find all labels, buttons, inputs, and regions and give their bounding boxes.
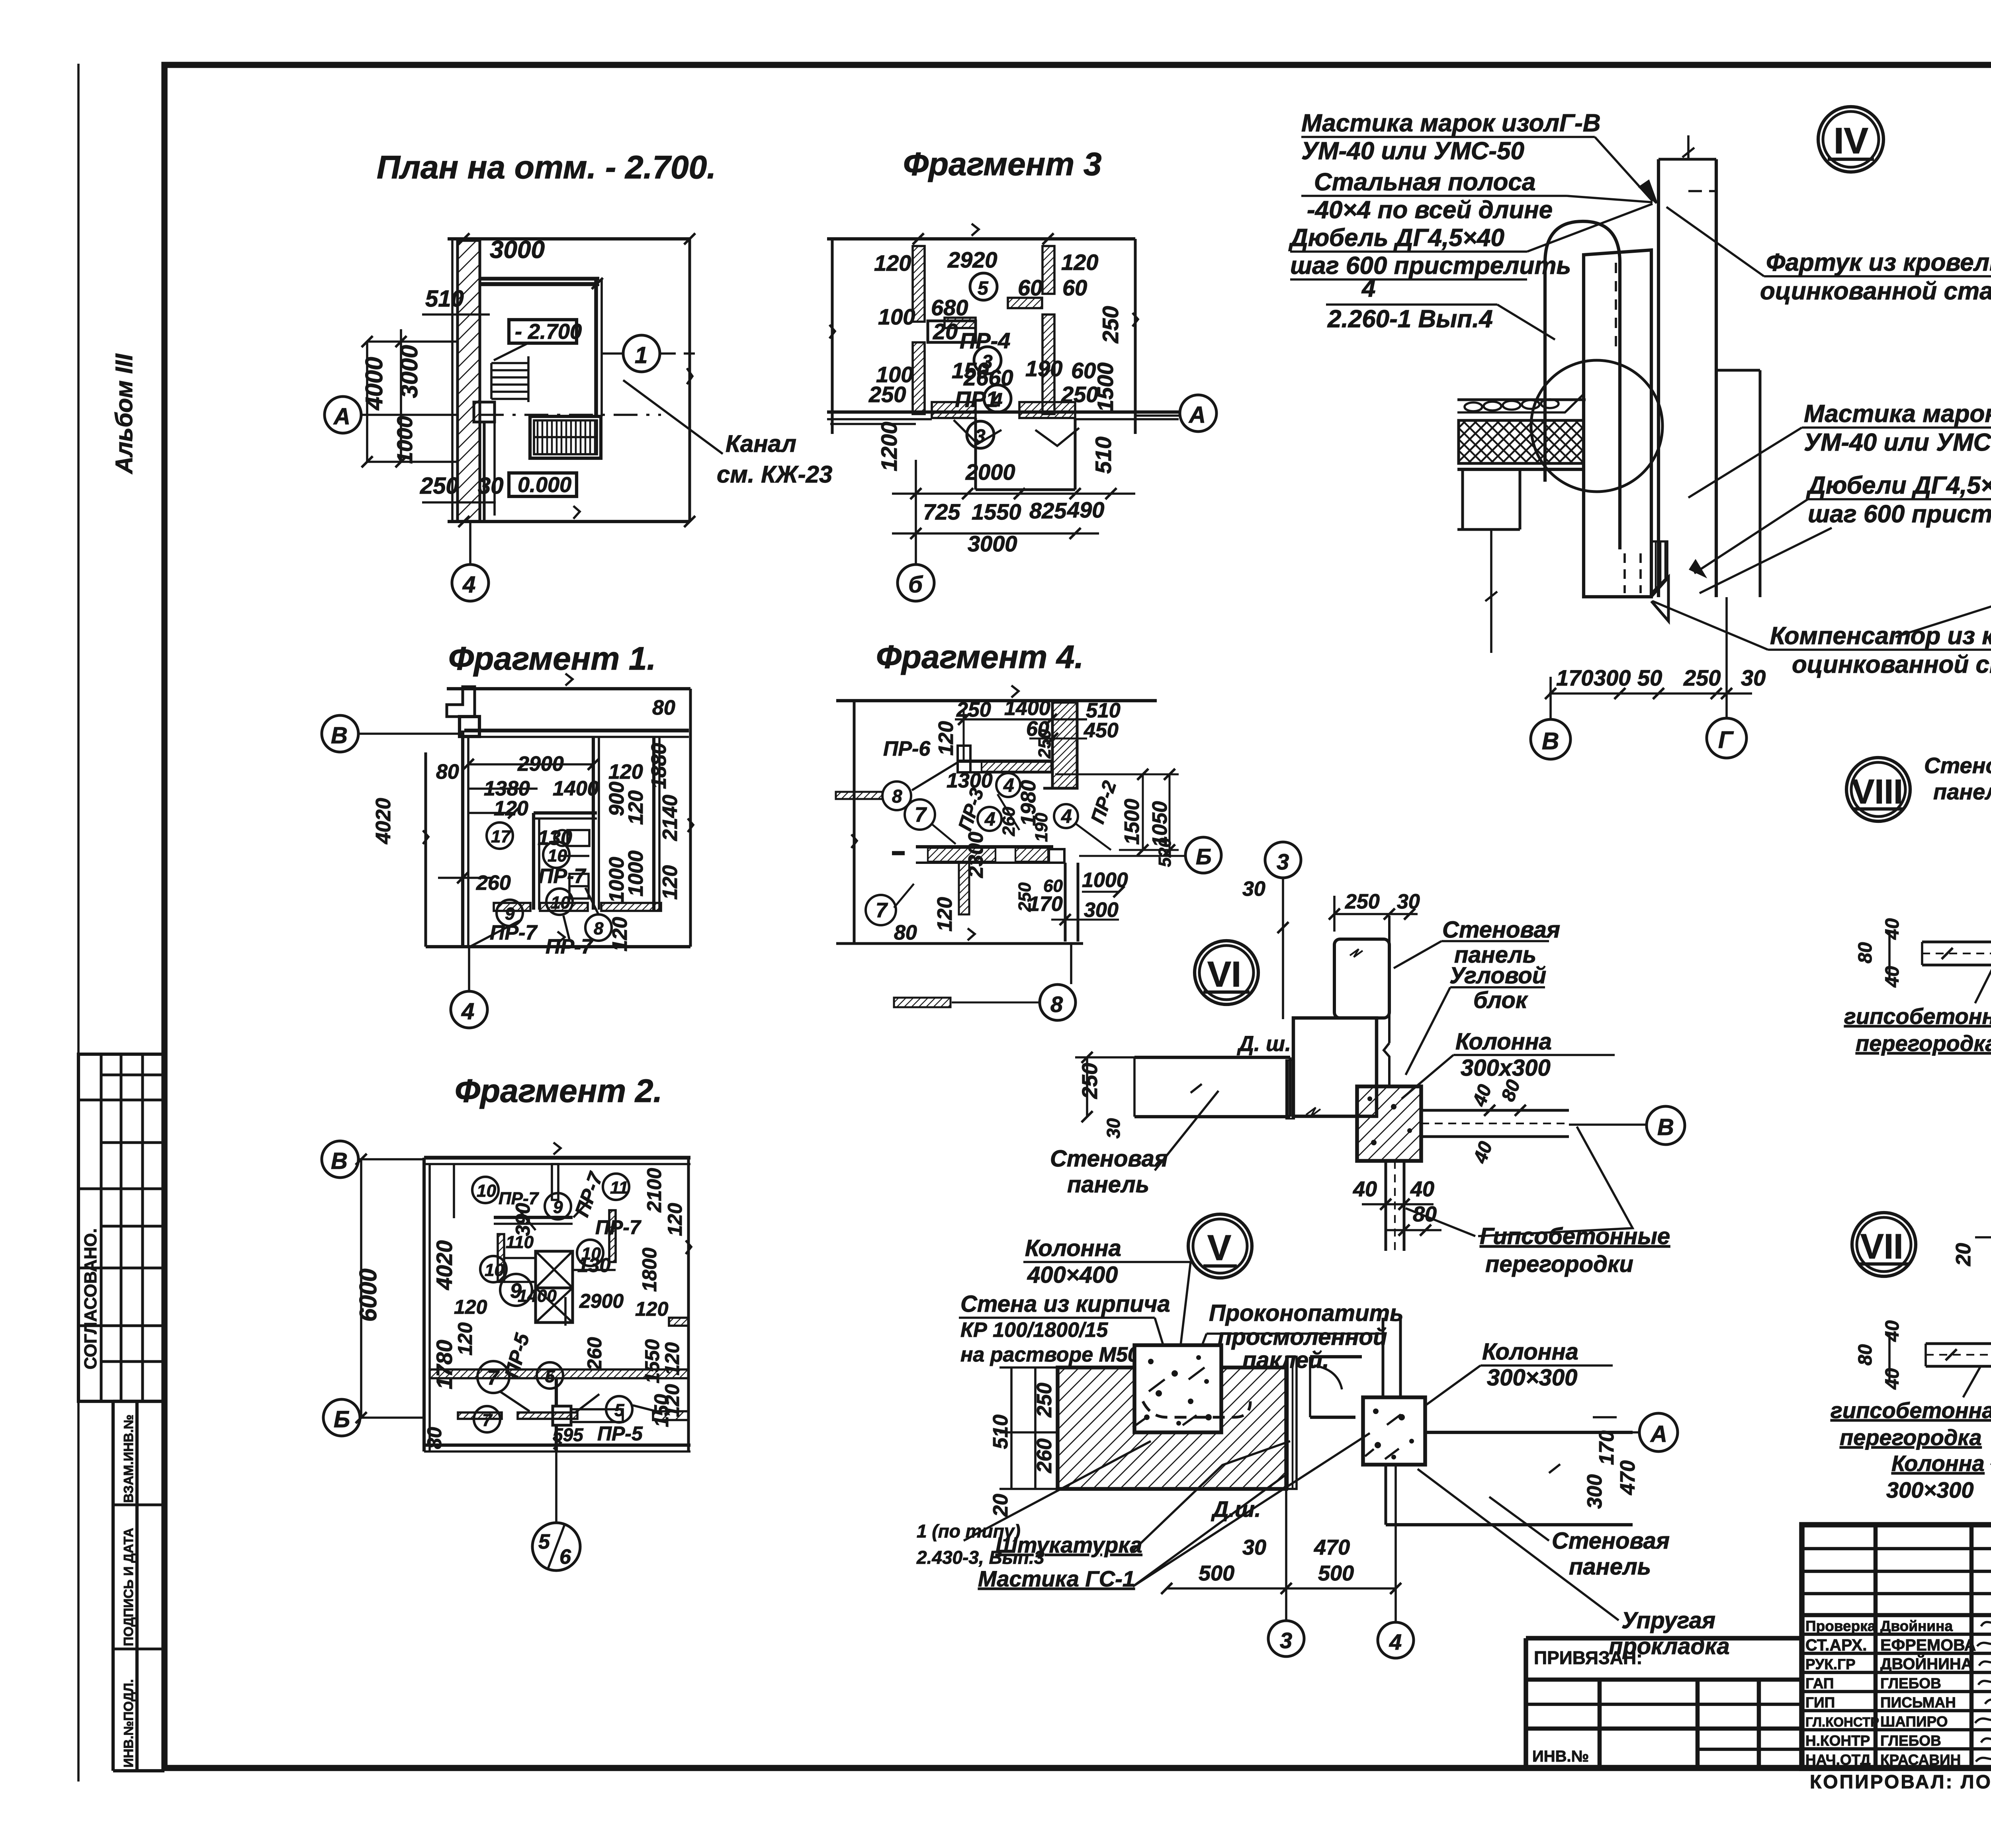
svg-text:ПР-6: ПР-6 xyxy=(883,737,931,760)
right dim lines xyxy=(1142,774,1144,850)
landing / lift shaft xyxy=(474,402,495,422)
svg-text:490: 490 xyxy=(1067,497,1104,522)
outer dim lines xyxy=(447,687,690,690)
lower horizontal wall xyxy=(916,845,1053,848)
stenovaya panel label xyxy=(1924,753,1991,804)
svg-text:120: 120 xyxy=(659,865,682,900)
svg-text:1780: 1780 xyxy=(432,1340,457,1389)
axis circles xyxy=(322,715,358,752)
svg-text:1500: 1500 xyxy=(1093,362,1118,412)
svg-text:гипсобетонная: гипсобетонная xyxy=(1831,1398,1991,1423)
svg-text:1550: 1550 xyxy=(641,1339,663,1383)
top dim line 3000 xyxy=(448,237,690,240)
svg-text:Фартук из кровельной: Фартук из кровельной xyxy=(1766,249,1991,276)
svg-text:250: 250 xyxy=(1035,729,1054,759)
svg-text:3000: 3000 xyxy=(968,531,1017,556)
axis A right xyxy=(1180,395,1217,432)
dim lines xyxy=(468,763,593,766)
svg-text:7: 7 xyxy=(876,899,888,922)
svg-text:4020: 4020 xyxy=(432,1240,457,1290)
dim texts xyxy=(894,697,1175,944)
svg-text:80: 80 xyxy=(1855,942,1876,963)
small circles xyxy=(970,273,997,300)
bottom labels xyxy=(916,1496,1261,1591)
right wall to axis B xyxy=(1421,1109,1569,1112)
svg-text:гипсобетонная: гипсобетонная xyxy=(1844,1004,1991,1029)
axis 8 bottom xyxy=(894,998,951,1007)
svg-text:40: 40 xyxy=(1882,966,1903,988)
svg-text:110: 110 xyxy=(506,1233,534,1252)
left partition wall xyxy=(1922,941,1991,944)
svg-text:300: 300 xyxy=(1583,1474,1606,1509)
svg-text:1: 1 xyxy=(635,342,647,368)
svg-text:А: А xyxy=(333,404,350,430)
svg-text:40: 40 xyxy=(1882,918,1903,940)
svg-text:ГЛ.КОНСТР: ГЛ.КОНСТР xyxy=(1805,1715,1879,1729)
svg-text:Гипсобетонные: Гипсобетонные xyxy=(1480,1223,1670,1249)
axis 3 xyxy=(1265,842,1301,878)
outer box xyxy=(424,1156,690,1160)
axis 1 circle xyxy=(623,335,660,372)
svg-text:3: 3 xyxy=(1277,849,1289,874)
flashing U xyxy=(1545,221,1620,549)
svg-text:перегородка: перегородка xyxy=(1856,1031,1991,1056)
svg-text:10: 10 xyxy=(477,1181,496,1201)
svg-text:Н.КОНТР: Н.КОНТР xyxy=(1805,1733,1870,1749)
dim lines lower xyxy=(915,460,917,565)
dim texts xyxy=(868,247,1123,556)
svg-text:- 2.700: - 2.700 xyxy=(515,320,582,344)
peregorodka label xyxy=(1844,1004,1991,1056)
svg-text:80: 80 xyxy=(652,696,675,719)
svg-text:панель: панель xyxy=(1569,1554,1651,1580)
svg-text:ПР-7: ПР-7 xyxy=(595,1216,642,1239)
svg-text:Проверка: Проверка xyxy=(1805,1618,1876,1634)
svg-text:80: 80 xyxy=(1855,1344,1876,1365)
svg-text:КОПИРОВАЛ: ЛОГИНОВА: КОПИРОВАЛ: ЛОГИНОВА xyxy=(1810,1772,1991,1793)
svg-text:3: 3 xyxy=(1280,1628,1292,1653)
small hatched pads xyxy=(945,318,976,328)
svg-text:17: 17 xyxy=(491,827,511,846)
svg-text:ПР-4: ПР-4 xyxy=(960,328,1010,353)
svg-text:250: 250 xyxy=(1078,1063,1102,1099)
svg-text:400×400: 400×400 xyxy=(1027,1262,1118,1288)
svg-text:ПР-7: ПР-7 xyxy=(499,1189,540,1208)
svg-text:2100: 2100 xyxy=(643,1168,665,1213)
axis circles xyxy=(322,1141,358,1178)
svg-text:30: 30 xyxy=(1741,665,1766,690)
svg-text:595: 595 xyxy=(553,1424,584,1445)
svg-text:120: 120 xyxy=(608,917,632,951)
axis B right xyxy=(1079,855,1185,857)
svg-text:20: 20 xyxy=(933,319,958,344)
svg-text:250: 250 xyxy=(1345,890,1380,913)
svg-text:План на отм. - 2.700.: План на отм. - 2.700. xyxy=(377,149,716,186)
hatched partitions xyxy=(494,903,530,911)
svg-text:510: 510 xyxy=(425,286,464,312)
svg-text:9: 9 xyxy=(553,1197,563,1217)
svg-text:80: 80 xyxy=(894,921,917,944)
svg-text:2900: 2900 xyxy=(579,1290,624,1312)
svg-text:20: 20 xyxy=(1952,1243,1975,1266)
svg-text:4: 4 xyxy=(992,390,1003,411)
svg-text:6: 6 xyxy=(559,1545,571,1569)
svg-text:Стеновая: Стеновая xyxy=(1050,1146,1168,1172)
svg-text:8: 8 xyxy=(1050,992,1063,1017)
svg-text:40: 40 xyxy=(1882,1320,1903,1342)
svg-text:Фрагмент 1.: Фрагмент 1. xyxy=(448,641,656,677)
svg-text:перегородки: перегородки xyxy=(1485,1251,1633,1277)
corner step top-left xyxy=(447,687,475,717)
svg-text:Компенсатор из кровельной: Компенсатор из кровельной xyxy=(1770,622,1991,650)
svg-text:1000: 1000 xyxy=(393,416,417,464)
svg-text:120: 120 xyxy=(664,1203,686,1236)
svg-text:б: б xyxy=(908,572,923,598)
svg-text:шаг 600 пристрелить: шаг 600 пристрелить xyxy=(1808,500,1991,528)
svg-text:4020: 4020 xyxy=(372,798,395,844)
crossed block (column formwork) xyxy=(536,1251,573,1288)
svg-text:оцинкованной стали: оцинкованной стали xyxy=(1760,277,1991,305)
svg-text:300: 300 xyxy=(1594,665,1631,690)
svg-text:7: 7 xyxy=(487,1366,500,1389)
svg-text:250: 250 xyxy=(420,473,459,499)
-2.700 box xyxy=(509,320,577,343)
svg-text:3: 3 xyxy=(982,352,993,373)
svg-text:Б: Б xyxy=(1196,844,1212,869)
svg-text:120: 120 xyxy=(454,1296,487,1318)
labels left xyxy=(1831,1398,1991,1502)
svg-text:30: 30 xyxy=(1242,1535,1266,1559)
svg-text:Упругая: Упругая xyxy=(1621,1608,1715,1633)
svg-text:190: 190 xyxy=(1025,356,1062,381)
svg-text:2920: 2920 xyxy=(947,247,997,272)
svg-text:В: В xyxy=(1542,728,1559,754)
svg-text:блок: блок xyxy=(1473,987,1528,1013)
mastika right label xyxy=(1804,400,1991,456)
svg-text:500: 500 xyxy=(1318,1561,1354,1585)
plan walls xyxy=(480,277,599,281)
svg-text:1550: 1550 xyxy=(972,499,1021,524)
svg-text:5: 5 xyxy=(614,1401,624,1420)
svg-text:250: 250 xyxy=(868,382,906,407)
svg-text:250: 250 xyxy=(1098,306,1123,344)
svg-text:5: 5 xyxy=(545,1367,555,1386)
kompensator label xyxy=(1770,622,1991,678)
dim 250/30 above panel xyxy=(1334,913,1418,915)
strip below column xyxy=(1385,1161,1387,1251)
svg-text:4: 4 xyxy=(1389,1629,1402,1655)
svg-text:4: 4 xyxy=(1061,806,1072,827)
svg-text:прокладка: прокладка xyxy=(1609,1633,1730,1659)
right boundary dim line xyxy=(688,239,691,522)
axis 4 bottom xyxy=(469,522,471,565)
svg-text:60: 60 xyxy=(1071,358,1096,383)
svg-text:ПР-7: ПР-7 xyxy=(538,865,586,888)
svg-text:Альбом III: Альбом III xyxy=(111,354,137,475)
svg-text:120: 120 xyxy=(661,1342,683,1375)
svg-text:60: 60 xyxy=(1018,275,1042,300)
left dims for V xyxy=(1010,1367,1013,1489)
vertical strip above right column xyxy=(1382,1318,1385,1397)
svg-text:300×300: 300×300 xyxy=(1487,1365,1577,1391)
railing channel xyxy=(530,416,601,458)
svg-text:В: В xyxy=(331,1148,348,1174)
svg-text:2.260-1 Вып.4: 2.260-1 Вып.4 xyxy=(1327,305,1493,333)
svg-text:30: 30 xyxy=(1397,890,1420,913)
svg-text:НАЧ.ОТД: НАЧ.ОТД xyxy=(1805,1752,1871,1768)
svg-text:9: 9 xyxy=(505,904,515,924)
paper edge line xyxy=(77,64,80,1782)
svg-text:1500: 1500 xyxy=(1121,799,1144,845)
tall hatched wall right xyxy=(1052,702,1077,788)
svg-text:VIII: VIII xyxy=(1852,773,1903,811)
svg-text:Проконопатить: Проконопатить xyxy=(1209,1300,1404,1326)
svg-text:40: 40 xyxy=(1882,1368,1903,1390)
kanal label xyxy=(623,380,723,454)
svg-text:190: 190 xyxy=(1032,813,1051,842)
svg-text:1000: 1000 xyxy=(624,850,647,897)
svg-text:120: 120 xyxy=(874,250,911,275)
svg-text:оцинкованной стали: оцинкованной стали xyxy=(1792,651,1991,678)
svg-text:10: 10 xyxy=(485,1260,504,1280)
svg-text:120: 120 xyxy=(624,790,647,825)
svg-text:510: 510 xyxy=(1091,437,1116,474)
column 300 xyxy=(1363,1397,1425,1465)
svg-text:Колонна: Колонна xyxy=(1482,1339,1578,1365)
svg-text:450: 450 xyxy=(1084,719,1119,742)
svg-text:СОГЛАСОВАНО.: СОГЛАСОВАНО. xyxy=(81,1228,100,1369)
svg-text:30: 30 xyxy=(1242,877,1265,901)
bottom double wall line xyxy=(827,410,1179,414)
svg-text:ГЛЕБОВ: ГЛЕБОВ xyxy=(1880,1733,1941,1749)
labels xyxy=(960,1235,1578,1391)
left hatched wall xyxy=(451,239,454,522)
svg-text:панель: панель xyxy=(1933,779,1991,804)
svg-text:КРАСАВИН: КРАСАВИН xyxy=(1880,1752,1961,1768)
svg-text:300: 300 xyxy=(1084,899,1119,922)
svg-text:4: 4 xyxy=(1003,775,1014,796)
svg-text:120: 120 xyxy=(454,1322,476,1356)
svg-text:100: 100 xyxy=(878,304,915,329)
svg-text:5: 5 xyxy=(538,1530,550,1553)
axis b bottom xyxy=(898,565,934,601)
svg-text:А: А xyxy=(1188,402,1206,428)
right room wall xyxy=(652,737,655,911)
svg-text:260: 260 xyxy=(999,807,1019,836)
dowel hatch at bottom of panel xyxy=(1651,541,1667,593)
svg-text:Б: Б xyxy=(334,1407,350,1432)
svg-text:Стеновая: Стеновая xyxy=(1552,1528,1670,1554)
svg-text:130: 130 xyxy=(577,1254,611,1276)
svg-text:V: V xyxy=(1207,1228,1231,1268)
svg-text:80: 80 xyxy=(1413,1202,1437,1226)
svg-text:КР 100/1800/15: КР 100/1800/15 xyxy=(960,1319,1108,1342)
svg-text:VII: VII xyxy=(1860,1227,1903,1266)
upper horizontal wall xyxy=(958,760,1052,763)
svg-text:Колонна: Колонна xyxy=(1025,1235,1121,1261)
svg-text:250: 250 xyxy=(1033,1383,1056,1418)
svg-text:3000: 3000 xyxy=(396,345,422,398)
svg-text:ГЛЕБОВ: ГЛЕБОВ xyxy=(1880,1675,1941,1692)
vertical hatched walls xyxy=(913,246,925,322)
labels right top xyxy=(1442,917,1560,1013)
bathroom walls xyxy=(534,811,597,815)
svg-text:шаг 600 пристрелить: шаг 600 пристрелить xyxy=(1290,252,1571,279)
svg-text:510: 510 xyxy=(989,1414,1012,1449)
bottom dims xyxy=(1167,1587,1396,1590)
svg-text:4: 4 xyxy=(984,809,995,830)
svg-text:170: 170 xyxy=(1556,665,1593,690)
svg-text:8: 8 xyxy=(892,786,902,807)
svg-text:1400: 1400 xyxy=(518,1286,557,1306)
door arcs bottom xyxy=(458,1412,502,1419)
dim line 250/1400 xyxy=(955,718,1087,721)
svg-text:Фрагмент 3: Фрагмент 3 xyxy=(903,146,1102,182)
vertical partition stubs xyxy=(552,1164,558,1200)
left vertical dims xyxy=(360,1159,362,1418)
right dims xyxy=(1593,1416,1617,1418)
stairs xyxy=(491,342,530,402)
svg-text:4: 4 xyxy=(461,998,474,1024)
privyazan table xyxy=(1526,1636,1802,1641)
svg-text:А: А xyxy=(1650,1421,1667,1447)
lower opening xyxy=(974,418,977,490)
svg-text:120: 120 xyxy=(608,760,643,783)
svg-text:7: 7 xyxy=(482,1410,493,1430)
svg-text:4: 4 xyxy=(462,572,475,598)
svg-text:РУК.ГР: РУК.ГР xyxy=(1805,1656,1856,1672)
svg-text:500: 500 xyxy=(1199,1561,1234,1585)
svg-text:11: 11 xyxy=(610,1178,628,1197)
svg-text:1400: 1400 xyxy=(1004,697,1050,720)
svg-text:300х300: 300х300 xyxy=(1461,1055,1551,1081)
svg-text:ИНВ.№ПОДЛ.: ИНВ.№ПОДЛ. xyxy=(121,1679,136,1768)
20 step left xyxy=(1975,1236,1991,1239)
svg-text:8: 8 xyxy=(594,919,604,938)
svg-text:250: 250 xyxy=(1683,665,1721,690)
svg-text:-40×4 по всей длине: -40×4 по всей длине xyxy=(1307,196,1553,224)
svg-text:Колонна: Колонна xyxy=(1455,1029,1552,1055)
svg-text:60: 60 xyxy=(1062,275,1087,300)
seam dotted strip xyxy=(1286,1060,1294,1119)
svg-text:ИНВ.№: ИНВ.№ xyxy=(1532,1748,1589,1765)
dims xyxy=(1078,1063,1525,1226)
number circles xyxy=(472,1174,632,1432)
left wall xyxy=(461,731,464,947)
column xyxy=(1357,1086,1421,1161)
svg-text:СТ.АРХ.: СТ.АРХ. xyxy=(1805,1636,1867,1654)
top double wall xyxy=(464,729,689,733)
svg-text:ГИП: ГИП xyxy=(1805,1694,1835,1711)
svg-text:825: 825 xyxy=(1029,498,1067,523)
seam strip right of wall xyxy=(1286,1357,1297,1489)
svg-text:Фрагмент 4.: Фрагмент 4. xyxy=(876,639,1084,675)
node VI marker xyxy=(1195,941,1258,1004)
dims 80/40/40 xyxy=(1888,932,1891,979)
svg-text:40: 40 xyxy=(1410,1177,1434,1201)
axis circles xyxy=(1531,719,1571,759)
svg-text:ПР-5: ПР-5 xyxy=(597,1422,643,1445)
svg-text:перегородка: перегородка xyxy=(1840,1425,1982,1450)
svg-text:120: 120 xyxy=(935,721,958,756)
right part: panel walls xyxy=(1310,1355,1362,1358)
svg-text:ДВОЙНИНА: ДВОЙНИНА xyxy=(1880,1655,1973,1673)
PR-6 stub + circle 8 xyxy=(836,792,882,799)
svg-text:4000: 4000 xyxy=(361,357,387,410)
svg-text:20: 20 xyxy=(989,1494,1012,1517)
middle horizontal hatched wall xyxy=(430,1369,688,1378)
svg-text:170: 170 xyxy=(1595,1430,1618,1465)
kolonna label xyxy=(1455,1029,1552,1081)
svg-text:680: 680 xyxy=(931,295,968,320)
svg-text:на растворе М50: на растворе М50 xyxy=(960,1343,1139,1366)
svg-text:30: 30 xyxy=(478,473,504,499)
svg-text:260: 260 xyxy=(1033,1438,1056,1473)
svg-text:5: 5 xyxy=(978,278,989,299)
svg-text:2140: 2140 xyxy=(659,795,682,841)
fixtures xyxy=(554,830,570,846)
svg-text:2300: 2300 xyxy=(964,832,988,878)
wall panel vertical xyxy=(1334,939,1389,1018)
svg-text:520: 520 xyxy=(1155,838,1175,867)
svg-text:80: 80 xyxy=(423,1427,446,1449)
svg-text:ГАП: ГАП xyxy=(1805,1675,1834,1692)
svg-text:Стена из кирпича: Стена из кирпича xyxy=(960,1291,1170,1317)
svg-text:Фрагмент 2.: Фрагмент 2. xyxy=(455,1073,662,1109)
svg-text:120: 120 xyxy=(1061,250,1098,275)
svg-text:Колонна: Колонна xyxy=(1891,1451,1985,1476)
left dims xyxy=(366,342,368,462)
svg-text:725: 725 xyxy=(923,499,960,524)
svg-text:Д. ш.: Д. ш. xyxy=(1237,1032,1291,1056)
left signature columns xyxy=(1874,1525,1878,1768)
svg-text:470: 470 xyxy=(1616,1460,1639,1495)
brick wall band xyxy=(1058,1367,1286,1489)
stenovaya panel label left xyxy=(1050,1146,1168,1197)
svg-text:40: 40 xyxy=(1353,1177,1377,1201)
corner block xyxy=(1388,916,1391,1043)
svg-text:Стеновая: Стеновая xyxy=(1442,917,1560,943)
svg-text:Г: Г xyxy=(1718,727,1734,753)
number circles xyxy=(487,822,612,941)
svg-text:120: 120 xyxy=(635,1298,669,1320)
signatures xyxy=(1975,1615,1991,1762)
svg-text:80: 80 xyxy=(436,760,459,783)
svg-text:2000: 2000 xyxy=(965,459,1015,484)
svg-text:Стальная полоса: Стальная полоса xyxy=(1314,168,1536,196)
dim texts xyxy=(372,696,682,958)
svg-text:170: 170 xyxy=(1028,893,1063,916)
stenovaya panel / uprugaya prokladka labels xyxy=(1552,1528,1730,1659)
svg-text:1800: 1800 xyxy=(638,1248,661,1292)
bottom dim line xyxy=(1549,692,1752,695)
svg-text:ПИСЬМАН: ПИСЬМАН xyxy=(1880,1694,1956,1711)
axis A xyxy=(325,397,361,433)
svg-text:ПОДПИСЬ И ДАТА: ПОДПИСЬ И ДАТА xyxy=(121,1528,136,1646)
svg-text:УМ-40 или УМС-50: УМ-40 или УМС-50 xyxy=(1301,137,1524,165)
svg-text:1400: 1400 xyxy=(553,777,599,800)
dims xyxy=(423,1168,686,1449)
svg-text:ШАПИРО: ШАПИРО xyxy=(1880,1713,1948,1730)
svg-text:260: 260 xyxy=(583,1337,606,1371)
svg-text:Угловой: Угловой xyxy=(1449,963,1546,988)
svg-text:250: 250 xyxy=(956,698,991,721)
svg-text:470: 470 xyxy=(1314,1535,1350,1559)
svg-text:УМ-40 или УМС-50: УМ-40 или УМС-50 xyxy=(1804,429,1991,456)
svg-text:В: В xyxy=(331,723,348,748)
svg-text:Стеновая: Стеновая xyxy=(1924,753,1991,778)
svg-text:просмоленной: просмоленной xyxy=(1218,1324,1387,1350)
